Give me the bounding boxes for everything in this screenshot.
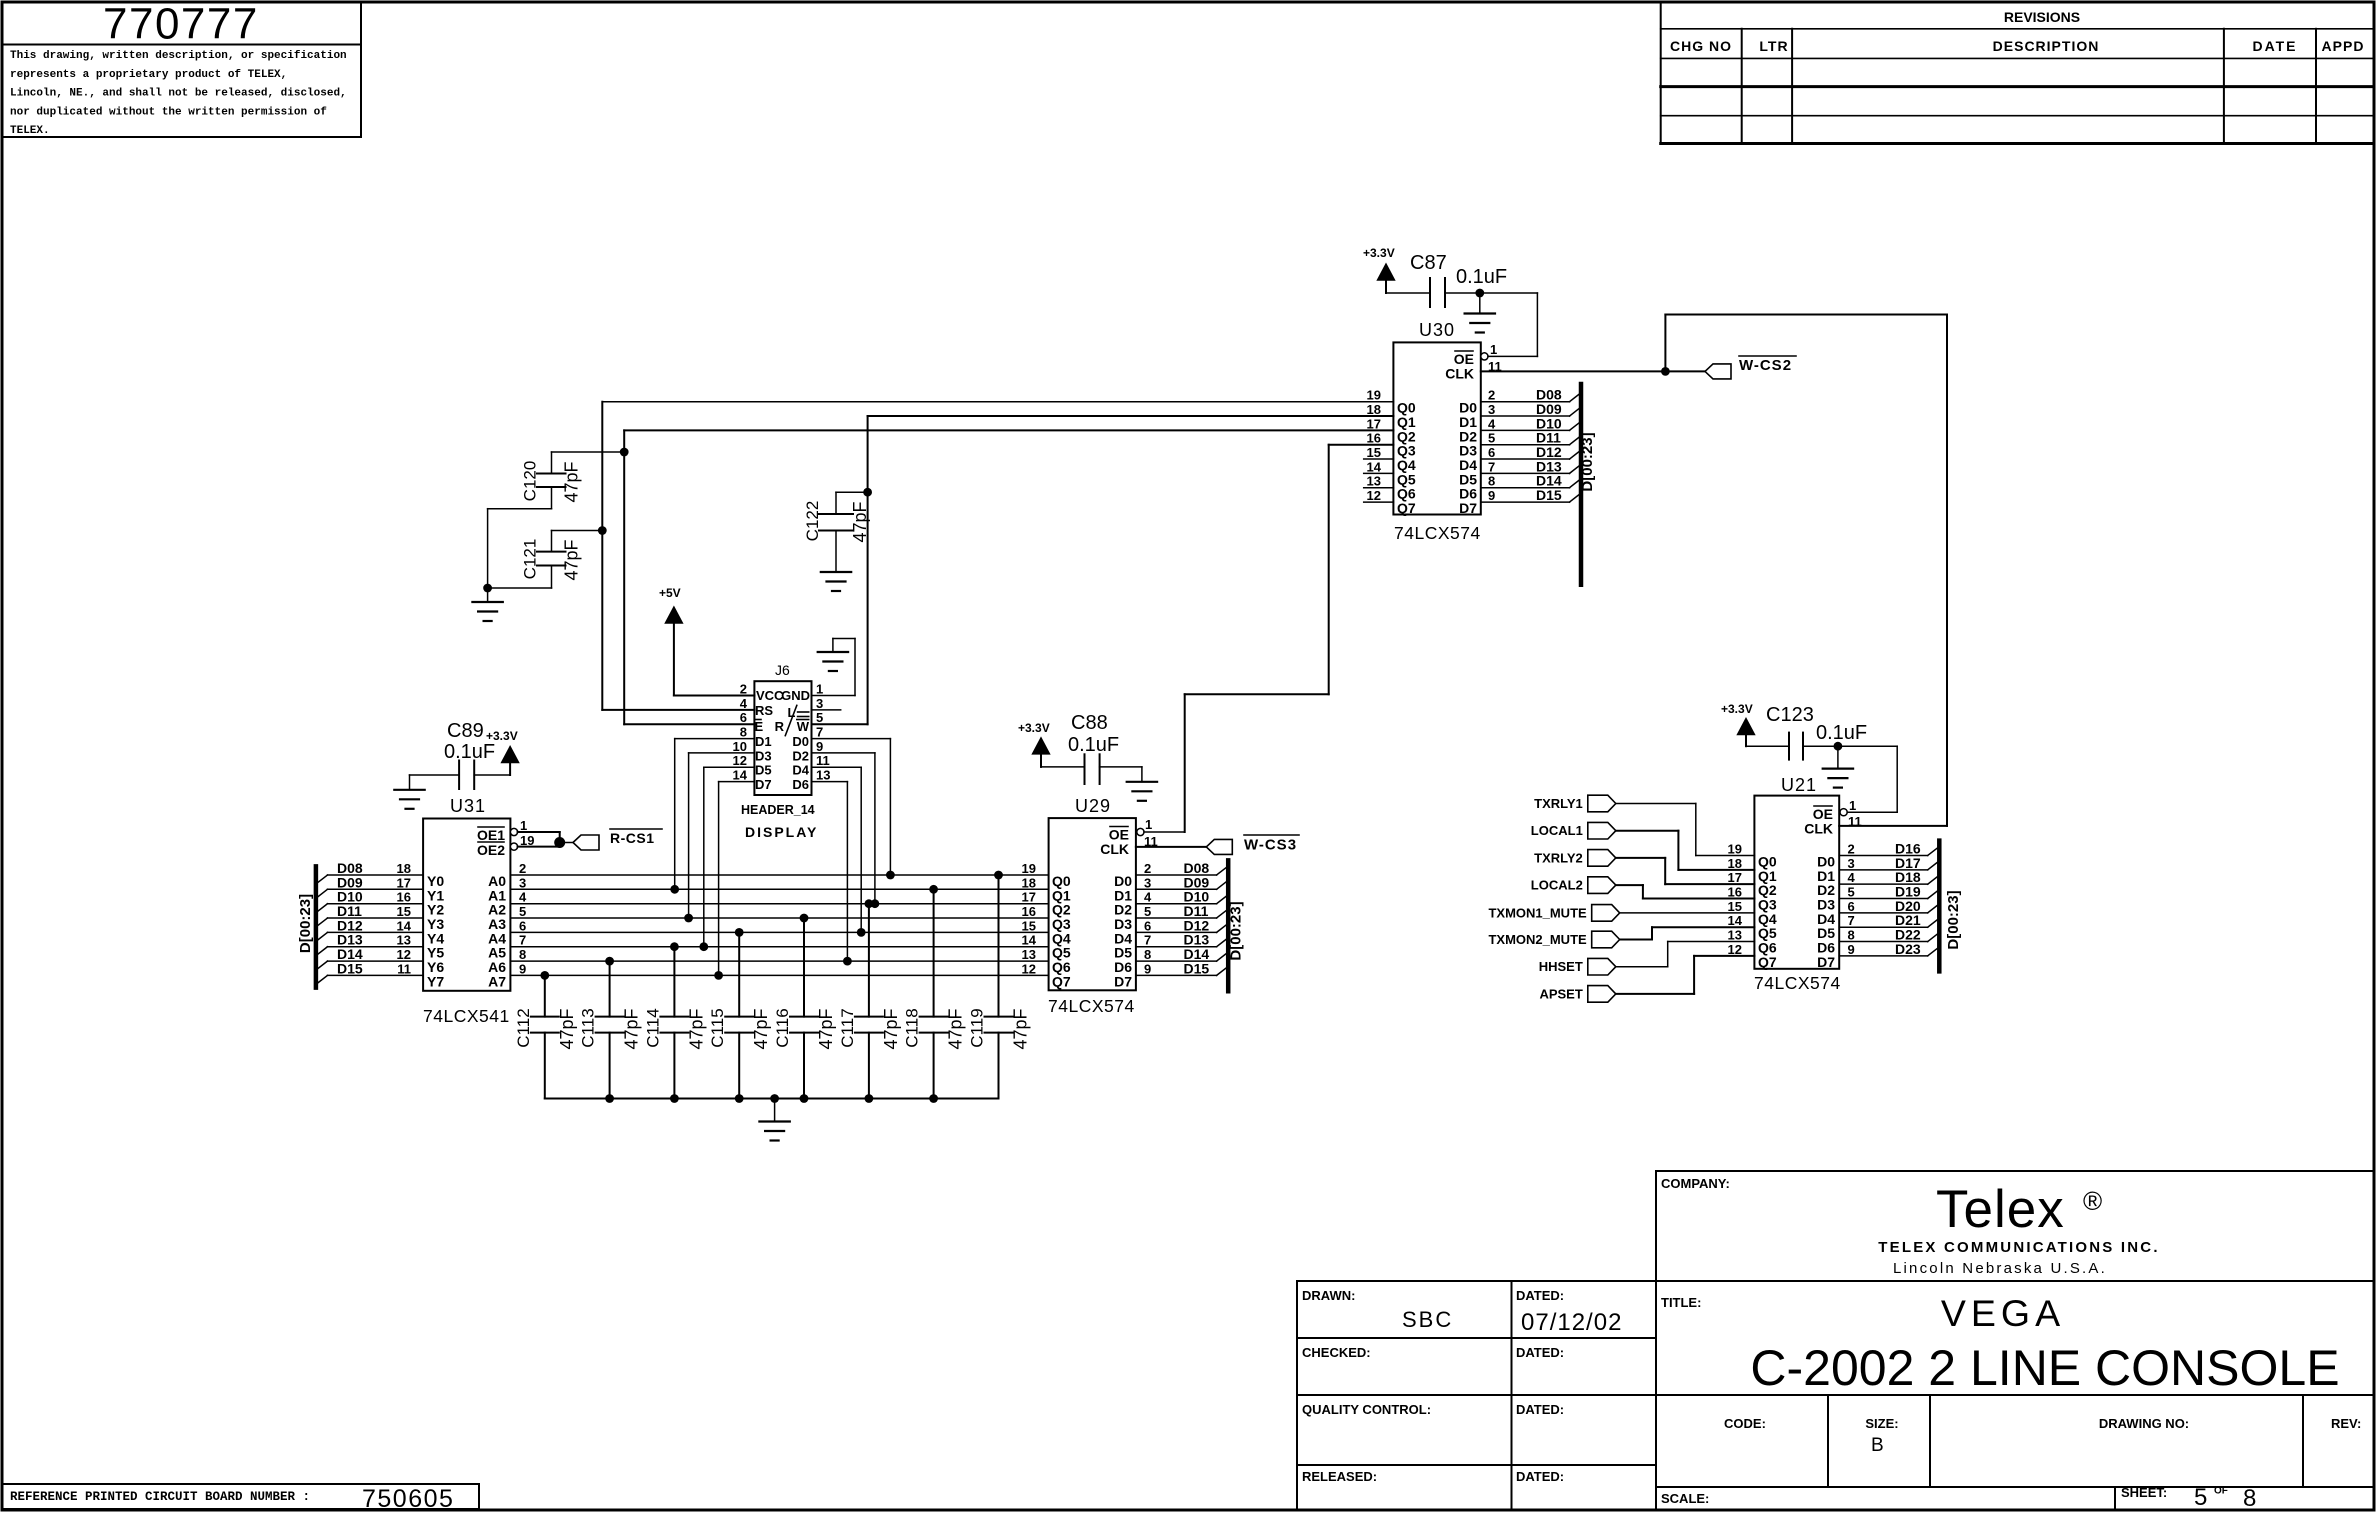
svg-text:19: 19 — [1367, 388, 1381, 403]
svg-text:19: 19 — [520, 833, 534, 848]
svg-text:12: 12 — [1728, 942, 1742, 957]
svg-text:D1: D1 — [755, 734, 772, 749]
svg-text:CODE:: CODE: — [1724, 1416, 1766, 1431]
svg-text:Q7: Q7 — [1052, 973, 1071, 989]
svg-text:16: 16 — [397, 890, 411, 905]
svg-text:1: 1 — [1490, 342, 1497, 357]
svg-text:3: 3 — [816, 696, 823, 711]
svg-text:Lincoln, NE., and shall not be: Lincoln, NE., and shall not be released,… — [10, 88, 347, 100]
svg-text:W-CS2: W-CS2 — [1739, 357, 1792, 374]
svg-text:11: 11 — [397, 961, 411, 976]
svg-text:14: 14 — [733, 768, 748, 783]
svg-text:0.1uF: 0.1uF — [1456, 266, 1507, 288]
svg-text:9: 9 — [1848, 942, 1855, 957]
svg-text:8: 8 — [740, 725, 747, 740]
svg-text:C113: C113 — [579, 1008, 598, 1047]
svg-text:5: 5 — [519, 904, 526, 919]
svg-text:REVISIONS: REVISIONS — [2004, 9, 2080, 25]
svg-text:47pF: 47pF — [686, 1008, 706, 1049]
svg-text:0.1uF: 0.1uF — [1068, 734, 1119, 756]
svg-text:OE2: OE2 — [477, 842, 505, 858]
svg-text:9: 9 — [816, 739, 823, 754]
svg-text:CLK: CLK — [1804, 821, 1833, 837]
svg-text:8: 8 — [1848, 928, 1855, 943]
svg-text:Telex: Telex — [1936, 1180, 2065, 1239]
svg-text:U31: U31 — [450, 796, 486, 816]
svg-text:TXMON2_MUTE: TXMON2_MUTE — [1488, 932, 1587, 947]
svg-text:QUALITY CONTROL:: QUALITY CONTROL: — [1302, 1402, 1431, 1417]
svg-text:17: 17 — [397, 875, 411, 890]
svg-text:DRAWING NO:: DRAWING NO: — [2099, 1416, 2189, 1431]
svg-text:nor duplicated without the wri: nor duplicated without the written permi… — [10, 106, 327, 118]
svg-text:®: ® — [2083, 1186, 2102, 1216]
svg-text:1: 1 — [520, 818, 527, 833]
svg-text:A7: A7 — [488, 973, 506, 989]
svg-text:07/12/02: 07/12/02 — [1521, 1309, 1622, 1336]
svg-text:LOCAL2: LOCAL2 — [1531, 878, 1583, 893]
svg-text:D23: D23 — [1895, 941, 1921, 957]
svg-text:14: 14 — [1367, 459, 1382, 474]
svg-text:Lincoln Nebraska U.S.A.: Lincoln Nebraska U.S.A. — [1893, 1260, 2107, 1277]
svg-text:8: 8 — [519, 947, 526, 962]
svg-text:2: 2 — [1144, 861, 1151, 876]
svg-text:14: 14 — [397, 918, 412, 933]
svg-text:13: 13 — [397, 933, 411, 948]
svg-text:16: 16 — [1022, 904, 1036, 919]
svg-text:VEGA: VEGA — [1941, 1292, 2065, 1334]
svg-text:750605: 750605 — [362, 1485, 454, 1513]
svg-text:APPD: APPD — [2322, 38, 2365, 54]
svg-text:C114: C114 — [643, 1008, 662, 1047]
svg-text:74LCX574: 74LCX574 — [1394, 523, 1481, 543]
svg-text:This drawing, written descript: This drawing, written description, or sp… — [10, 50, 347, 62]
svg-text:D3: D3 — [755, 748, 772, 763]
svg-text:D15: D15 — [1184, 960, 1210, 976]
svg-text:U29: U29 — [1075, 796, 1111, 816]
svg-text:VCC: VCC — [756, 688, 784, 703]
svg-text:HHSET: HHSET — [1539, 959, 1583, 974]
svg-text:SCALE:: SCALE: — [1661, 1491, 1709, 1506]
svg-text:SBC: SBC — [1402, 1307, 1453, 1332]
svg-text:C122: C122 — [803, 501, 822, 542]
svg-text:47pF: 47pF — [816, 1008, 836, 1049]
svg-text:DATED:: DATED: — [1516, 1288, 1564, 1303]
svg-text:4: 4 — [519, 890, 527, 905]
svg-text:R: R — [775, 719, 785, 734]
svg-text:D[00:23]: D[00:23] — [1579, 432, 1596, 491]
svg-text:9: 9 — [1488, 488, 1495, 503]
svg-text:8: 8 — [2243, 1485, 2256, 1512]
svg-text:D7: D7 — [1817, 954, 1835, 970]
svg-text:TELEX COMMUNICATIONS INC.: TELEX COMMUNICATIONS INC. — [1878, 1239, 2159, 1256]
svg-text:CLK: CLK — [1445, 366, 1474, 382]
svg-text:47pF: 47pF — [562, 539, 582, 580]
svg-text:12: 12 — [1367, 488, 1381, 503]
svg-text:11: 11 — [816, 753, 830, 768]
svg-text:74LCX541: 74LCX541 — [423, 1006, 510, 1026]
svg-text:12: 12 — [733, 753, 747, 768]
svg-text:5: 5 — [2194, 1484, 2207, 1511]
svg-text:4: 4 — [1144, 890, 1152, 905]
svg-text:15: 15 — [1367, 445, 1381, 460]
svg-text:J6: J6 — [775, 662, 790, 678]
svg-text:C115: C115 — [708, 1008, 727, 1047]
svg-text:13: 13 — [1022, 947, 1036, 962]
svg-text:17: 17 — [1728, 870, 1742, 885]
svg-text:4: 4 — [1488, 416, 1496, 431]
svg-text:DATE: DATE — [2252, 38, 2297, 54]
svg-text:E: E — [755, 719, 764, 734]
svg-text:OF: OF — [2214, 1486, 2228, 1497]
svg-text:D15: D15 — [1536, 487, 1562, 503]
svg-text:D0: D0 — [792, 734, 809, 749]
svg-text:C116: C116 — [773, 1008, 792, 1047]
svg-text:COMPANY:: COMPANY: — [1661, 1176, 1730, 1191]
svg-text:C119: C119 — [968, 1008, 987, 1047]
svg-text:2: 2 — [1848, 842, 1855, 857]
svg-text:47pF: 47pF — [557, 1008, 577, 1049]
svg-text:C117: C117 — [838, 1008, 857, 1047]
svg-text:13: 13 — [816, 768, 830, 783]
svg-text:C87: C87 — [1410, 252, 1447, 274]
svg-text:SIZE:: SIZE: — [1865, 1416, 1898, 1431]
svg-text:D2: D2 — [792, 748, 809, 763]
svg-text:CHECKED:: CHECKED: — [1302, 1345, 1371, 1360]
svg-text:RS: RS — [755, 703, 773, 718]
svg-text:TXRLY1: TXRLY1 — [1534, 796, 1583, 811]
svg-text:U21: U21 — [1781, 775, 1817, 795]
svg-text:D7: D7 — [1114, 973, 1132, 989]
svg-text:14: 14 — [1022, 933, 1037, 948]
svg-text:CHG NO: CHG NO — [1670, 38, 1732, 54]
svg-text:B: B — [1871, 1435, 1884, 1456]
svg-text:Q7: Q7 — [1397, 500, 1416, 516]
svg-text:SHEET:: SHEET: — [2121, 1485, 2167, 1500]
svg-text:47pF: 47pF — [1011, 1008, 1031, 1049]
svg-text:6: 6 — [740, 710, 747, 725]
svg-text:LTR: LTR — [1759, 38, 1788, 54]
svg-text:47pF: 47pF — [850, 501, 870, 542]
svg-text:C118: C118 — [903, 1008, 922, 1047]
svg-text:3: 3 — [519, 875, 526, 890]
svg-text:+3.3V: +3.3V — [1363, 246, 1395, 260]
svg-text:12: 12 — [397, 947, 411, 962]
svg-text:W-CS3: W-CS3 — [1244, 837, 1297, 854]
svg-text:U30: U30 — [1419, 320, 1455, 340]
svg-text:2: 2 — [740, 682, 747, 697]
svg-text:2: 2 — [519, 861, 526, 876]
svg-text:DESCRIPTION: DESCRIPTION — [1993, 38, 2100, 54]
svg-text:6: 6 — [1848, 899, 1855, 914]
svg-text:+3.3V: +3.3V — [1721, 702, 1753, 716]
svg-text:Q7: Q7 — [1758, 954, 1777, 970]
svg-text:C120: C120 — [521, 461, 540, 502]
svg-text:9: 9 — [519, 961, 526, 976]
svg-text:47pF: 47pF — [751, 1008, 771, 1049]
svg-text:47pF: 47pF — [622, 1008, 642, 1049]
svg-text:LOCAL1: LOCAL1 — [1531, 823, 1583, 838]
svg-text:5: 5 — [1488, 431, 1495, 446]
svg-text:16: 16 — [1728, 885, 1742, 900]
svg-text:6: 6 — [1488, 445, 1495, 460]
svg-text:7: 7 — [1848, 913, 1855, 928]
svg-text:15: 15 — [397, 904, 411, 919]
svg-text:8: 8 — [1488, 474, 1495, 489]
svg-text:19: 19 — [1022, 861, 1036, 876]
svg-text:D7: D7 — [755, 777, 772, 792]
svg-text:5: 5 — [1848, 885, 1855, 900]
svg-text:12: 12 — [1022, 961, 1036, 976]
svg-text:C123: C123 — [1766, 704, 1814, 726]
svg-text:C121: C121 — [521, 539, 540, 580]
svg-text:7: 7 — [519, 933, 526, 948]
svg-text:17: 17 — [1367, 416, 1381, 431]
svg-text:10: 10 — [733, 739, 747, 754]
svg-text:1: 1 — [816, 682, 823, 697]
svg-text:0.1uF: 0.1uF — [444, 741, 495, 763]
svg-text:D4: D4 — [792, 763, 809, 778]
svg-text:47pF: 47pF — [562, 461, 582, 502]
svg-text:C112: C112 — [514, 1008, 533, 1047]
svg-text:CLK: CLK — [1100, 841, 1129, 857]
svg-text:2: 2 — [1488, 388, 1495, 403]
svg-text:19: 19 — [1728, 842, 1742, 857]
svg-text:HEADER_14: HEADER_14 — [741, 803, 815, 817]
svg-text:3: 3 — [1848, 856, 1855, 871]
svg-text:TXMON1_MUTE: TXMON1_MUTE — [1488, 905, 1587, 920]
svg-text:15: 15 — [1728, 899, 1742, 914]
svg-text:OE1: OE1 — [477, 827, 505, 843]
svg-text:47pF: 47pF — [946, 1008, 966, 1049]
svg-text:9: 9 — [1144, 961, 1151, 976]
svg-text:represents a proprietary produ: represents a proprietary product of TELE… — [10, 69, 287, 81]
svg-text:18: 18 — [1022, 875, 1036, 890]
svg-text:C88: C88 — [1071, 712, 1108, 734]
svg-text:0.1uF: 0.1uF — [1816, 722, 1867, 744]
svg-text:13: 13 — [1367, 474, 1381, 489]
svg-text:5: 5 — [1144, 904, 1151, 919]
svg-text:C89: C89 — [447, 720, 484, 742]
svg-text:13: 13 — [1728, 928, 1742, 943]
svg-text:TELEX.: TELEX. — [10, 125, 50, 137]
svg-text:D[00:23]: D[00:23] — [1228, 901, 1245, 960]
svg-text:+3.3V: +3.3V — [1018, 721, 1050, 735]
svg-text:R-CS1: R-CS1 — [610, 830, 655, 846]
svg-text:6: 6 — [1144, 918, 1151, 933]
svg-text:REV:: REV: — [2331, 1416, 2361, 1431]
svg-text:Y7: Y7 — [427, 973, 444, 989]
svg-text:18: 18 — [1367, 402, 1381, 417]
svg-text:C-2002 2 LINE CONSOLE: C-2002 2 LINE CONSOLE — [1750, 1340, 2339, 1396]
svg-text:DATED:: DATED: — [1516, 1469, 1564, 1484]
svg-text:3: 3 — [1488, 402, 1495, 417]
svg-text:5: 5 — [816, 710, 823, 725]
svg-text:15: 15 — [1022, 918, 1036, 933]
svg-text:3: 3 — [1144, 875, 1151, 890]
svg-text:8: 8 — [1144, 947, 1151, 962]
svg-text:18: 18 — [397, 861, 411, 876]
svg-text:D7: D7 — [1459, 500, 1477, 516]
svg-text:D5: D5 — [755, 763, 772, 778]
svg-text:6: 6 — [519, 918, 526, 933]
svg-text:4: 4 — [1848, 870, 1856, 885]
svg-text:17: 17 — [1022, 890, 1036, 905]
svg-text:D15: D15 — [337, 960, 363, 976]
svg-text:D6: D6 — [792, 777, 809, 792]
svg-text:DATED:: DATED: — [1516, 1345, 1564, 1360]
svg-text:7: 7 — [1144, 933, 1151, 948]
svg-text:1: 1 — [1145, 817, 1152, 832]
svg-text:47pF: 47pF — [881, 1008, 901, 1049]
svg-text:RELEASED:: RELEASED: — [1302, 1469, 1377, 1484]
svg-text:DISPLAY: DISPLAY — [745, 824, 818, 840]
svg-text:18: 18 — [1728, 856, 1742, 871]
svg-text:770777: 770777 — [103, 0, 259, 49]
svg-text:APSET: APSET — [1539, 986, 1582, 1001]
svg-text:16: 16 — [1367, 431, 1381, 446]
svg-text:W: W — [797, 719, 810, 734]
svg-text:TXRLY2: TXRLY2 — [1534, 850, 1583, 865]
svg-text:14: 14 — [1728, 913, 1743, 928]
svg-text:74LCX574: 74LCX574 — [1754, 973, 1841, 993]
svg-text:+5V: +5V — [659, 586, 681, 600]
svg-text:REFERENCE PRINTED CIRCUIT BOAR: REFERENCE PRINTED CIRCUIT BOARD NUMBER : — [10, 1490, 310, 1504]
svg-text:7: 7 — [1488, 459, 1495, 474]
svg-text:D[00:23]: D[00:23] — [1945, 890, 1962, 949]
svg-text:DATED:: DATED: — [1516, 1402, 1564, 1417]
svg-text:D[00:23]: D[00:23] — [297, 894, 314, 953]
svg-text:DRAWN:: DRAWN: — [1302, 1288, 1355, 1303]
svg-text:74LCX574: 74LCX574 — [1048, 996, 1135, 1016]
svg-text:TITLE:: TITLE: — [1661, 1295, 1701, 1310]
svg-text:GND: GND — [781, 688, 810, 703]
svg-text:4: 4 — [740, 696, 748, 711]
svg-text:7: 7 — [816, 725, 823, 740]
svg-text:1: 1 — [1849, 798, 1856, 813]
